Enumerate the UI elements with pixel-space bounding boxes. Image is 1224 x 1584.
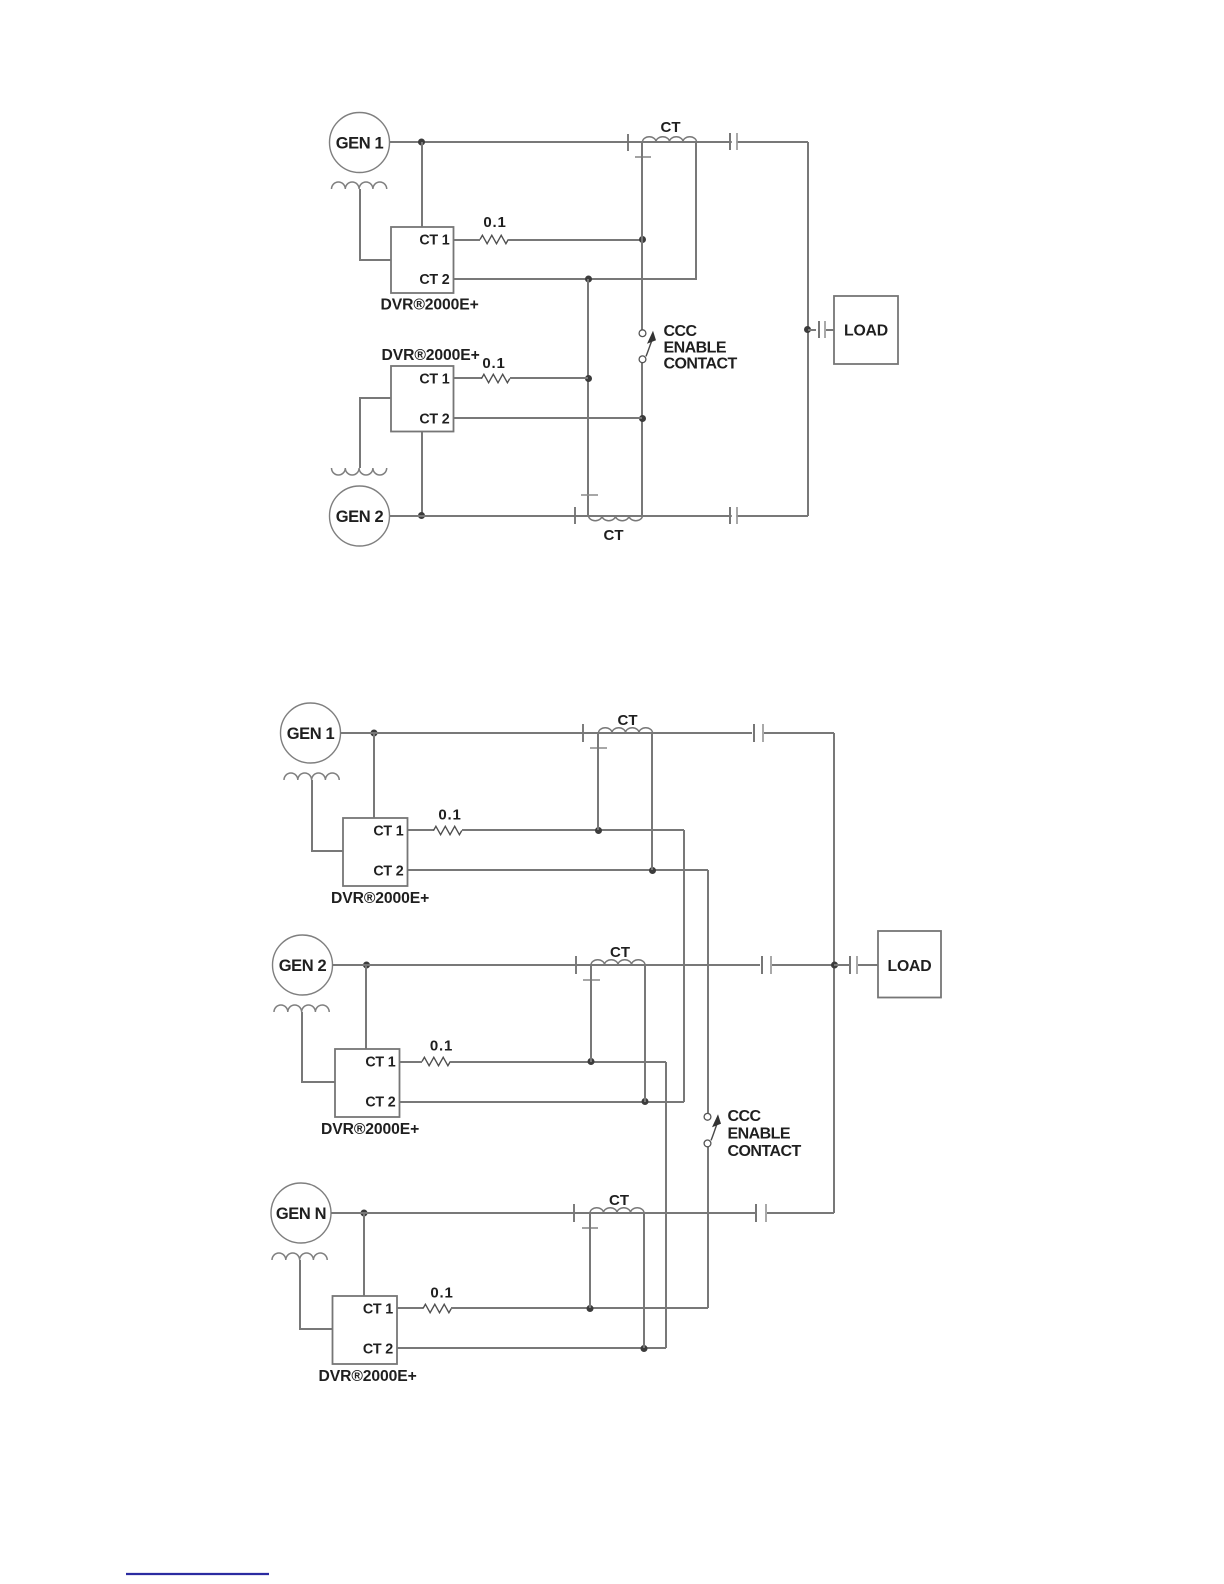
svg-text:CT 2: CT 2 bbox=[363, 1342, 393, 1358]
svg-text:0.1: 0.1 bbox=[482, 355, 505, 372]
svg-text:CT: CT bbox=[618, 712, 638, 729]
svg-text:GEN 1: GEN 1 bbox=[287, 725, 335, 743]
svg-text:DVR®2000E+: DVR®2000E+ bbox=[321, 1121, 419, 1138]
svg-text:CT 1: CT 1 bbox=[363, 1302, 393, 1318]
svg-text:0.1: 0.1 bbox=[438, 807, 461, 824]
svg-text:DVR®2000E+: DVR®2000E+ bbox=[382, 347, 480, 364]
svg-text:CT: CT bbox=[661, 119, 681, 136]
svg-text:0.1: 0.1 bbox=[483, 214, 506, 231]
svg-text:CT 1: CT 1 bbox=[419, 372, 449, 388]
svg-text:CT 1: CT 1 bbox=[365, 1055, 395, 1071]
svg-text:CT 2: CT 2 bbox=[419, 412, 449, 428]
svg-text:GEN 2: GEN 2 bbox=[336, 508, 384, 526]
svg-text:CCC: CCC bbox=[664, 323, 698, 340]
svg-text:CT 2: CT 2 bbox=[373, 864, 403, 880]
svg-text:CT 2: CT 2 bbox=[419, 272, 449, 288]
svg-text:DVR®2000E+: DVR®2000E+ bbox=[331, 890, 429, 907]
svg-text:GEN 2: GEN 2 bbox=[279, 957, 327, 975]
svg-text:LOAD: LOAD bbox=[844, 323, 888, 340]
svg-text:ENABLE: ENABLE bbox=[664, 339, 727, 356]
svg-text:CONTACT: CONTACT bbox=[728, 1143, 802, 1160]
svg-text:GEN 1: GEN 1 bbox=[336, 135, 384, 153]
svg-text:CONTACT: CONTACT bbox=[664, 356, 738, 373]
svg-text:CT 2: CT 2 bbox=[365, 1095, 395, 1111]
svg-text:CT: CT bbox=[610, 944, 630, 961]
svg-text:ENABLE: ENABLE bbox=[728, 1125, 791, 1142]
svg-text:CT 1: CT 1 bbox=[419, 233, 449, 249]
svg-text:CT: CT bbox=[604, 527, 624, 544]
svg-text:DVR®2000E+: DVR®2000E+ bbox=[319, 1368, 417, 1385]
svg-text:DVR®2000E+: DVR®2000E+ bbox=[381, 297, 479, 314]
svg-text:CCC: CCC bbox=[728, 1108, 762, 1125]
svg-text:LOAD: LOAD bbox=[888, 958, 932, 975]
svg-text:CT 1: CT 1 bbox=[373, 824, 403, 840]
svg-text:0.1: 0.1 bbox=[430, 1038, 453, 1055]
svg-text:CT: CT bbox=[609, 1192, 629, 1209]
svg-text:GEN N: GEN N bbox=[276, 1205, 326, 1223]
svg-text:0.1: 0.1 bbox=[430, 1285, 453, 1302]
